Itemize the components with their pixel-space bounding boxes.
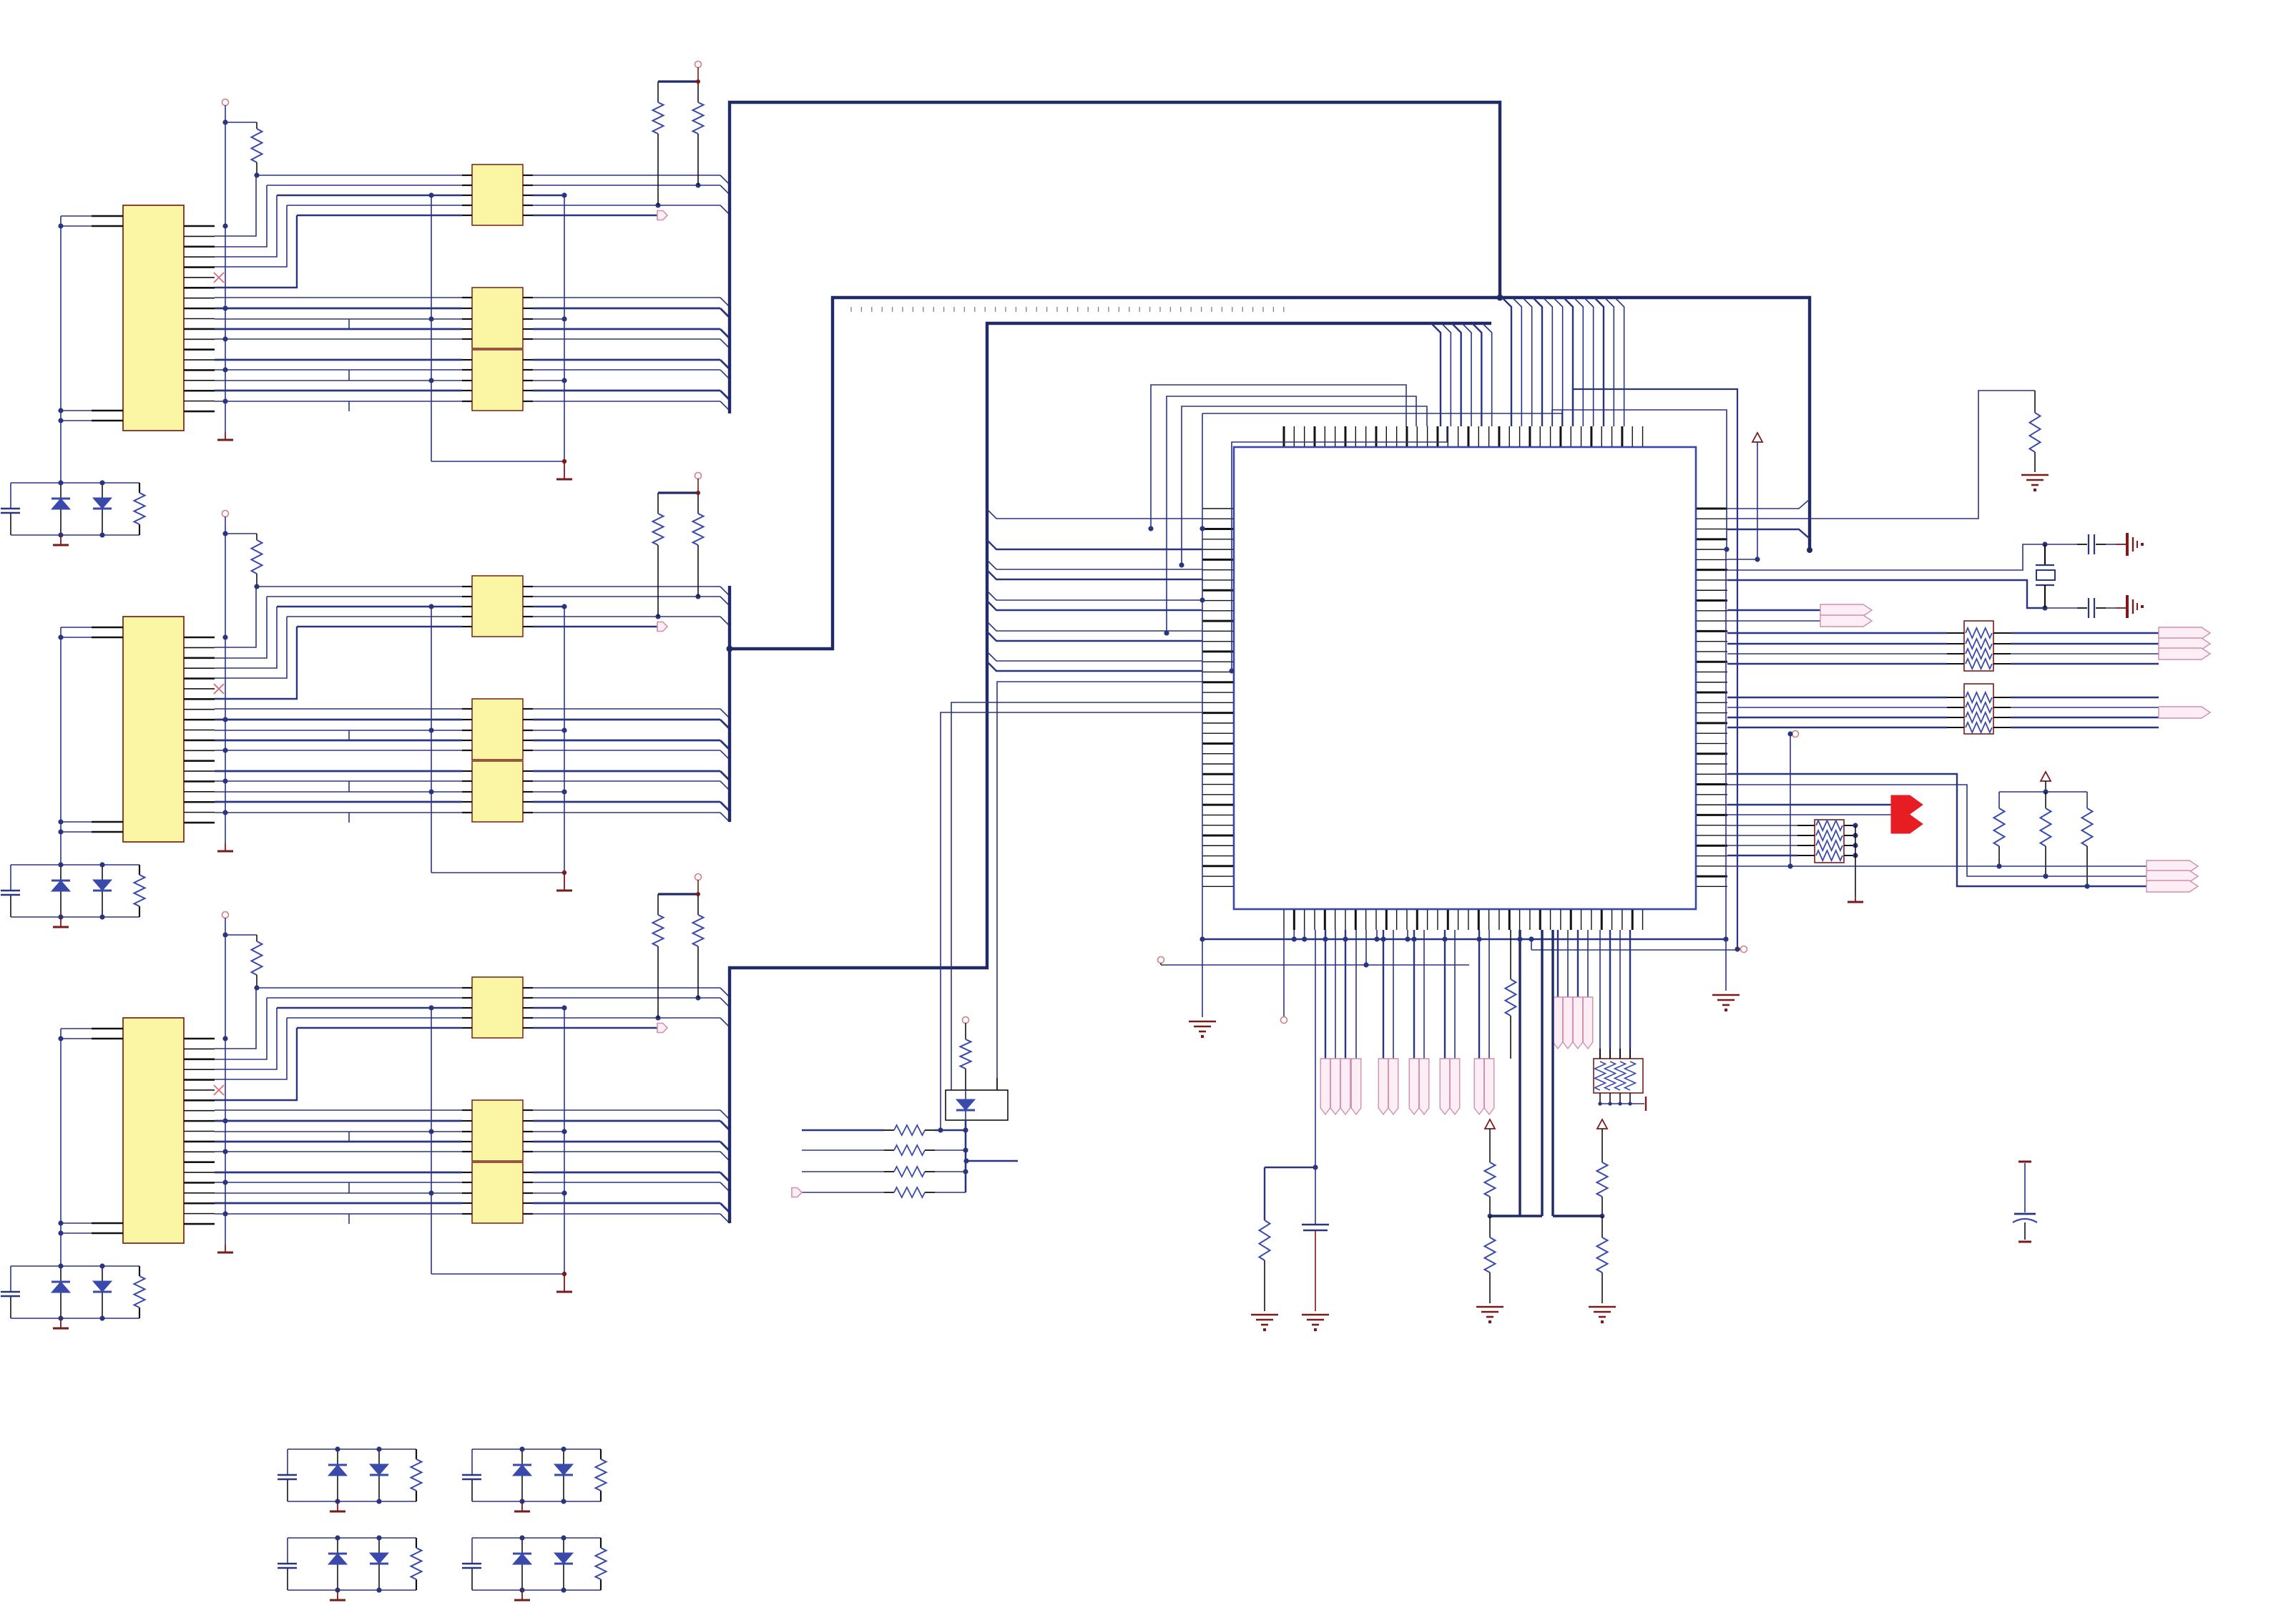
wire pull-up top bar 3 [658, 893, 698, 895]
U1 left pin 21 [1202, 712, 1233, 714]
bus wire drop A5 [1543, 298, 1552, 426]
wire row red arrow 2 [1727, 814, 1891, 815]
J3 pin 7 [184, 1099, 215, 1102]
RN2a pin stubs row 5 [462, 626, 472, 627]
RN2a pin stubs row 1 [462, 586, 472, 587]
wire common rail right 2 [564, 607, 565, 873]
U1 bottom pin 26 [1539, 910, 1541, 930]
over-IC link right A [1561, 410, 1563, 426]
J3 pin 6 [184, 1089, 215, 1091]
J1 pin 2 [184, 235, 215, 237]
RN1a pin stubs row 1 [462, 175, 472, 176]
U1 top pin 18 [1458, 426, 1459, 446]
U1 bottom pin 14 [1416, 910, 1418, 930]
U1 right pin 22 [1697, 722, 1727, 724]
divider R1 bottom [1489, 1216, 1491, 1237]
U1 left pin 13 [1202, 630, 1233, 632]
wire riser 3 J3 [215, 1008, 277, 1069]
resistor network RN_D [1594, 1059, 1643, 1093]
ground net 1 [217, 439, 233, 441]
U1 right pin 27 [1697, 773, 1727, 775]
wire riser 4 J2 [215, 617, 287, 678]
U1 right pin 36 [1697, 866, 1727, 867]
wire thick drop 2 [1551, 930, 1554, 1216]
wire drop GD1 [1444, 930, 1446, 1059]
wire RN_B row 1 right [1993, 697, 2011, 698]
resistor R33 [894, 1125, 925, 1135]
ground rail left [1189, 1021, 1216, 1031]
U1 left pin 37 [1202, 876, 1233, 877]
U1 left pin 20 [1202, 702, 1233, 703]
wire RN_C row 3 right [1844, 845, 1855, 846]
ground divider 1 [1476, 1307, 1503, 1317]
wire lower row 7 J2 [215, 780, 462, 782]
J3 pin 11 [184, 1141, 215, 1143]
ground divider 2 [1589, 1307, 1616, 1317]
wire lower row 6 J3 [215, 1172, 462, 1174]
J2 pin 1 [184, 637, 215, 639]
net arrow RED 2 [1891, 815, 1923, 833]
wire step jog J3 [348, 1182, 350, 1193]
net arrow GE2 [1484, 1059, 1494, 1114]
wire lower row 10 J1 [215, 401, 462, 402]
junction dots [335, 1446, 340, 1451]
wire lower row 8 J3 [215, 1192, 462, 1194]
IC U1 [1234, 447, 1696, 909]
net arrow RED 1 [1891, 795, 1923, 814]
J1 pin 19 [184, 411, 215, 413]
U1 top pin 5 [1324, 426, 1325, 446]
J1 pin 15 [184, 369, 215, 371]
U1 left pin 6 [1202, 559, 1233, 561]
J3 left pin 1 [92, 1028, 123, 1029]
net arrow GA2 [1330, 1059, 1340, 1114]
wire riser 1 J2 [215, 587, 256, 647]
wire over-IC link 3 [1182, 406, 1427, 565]
bus wire rip L8 [987, 632, 1202, 641]
wire lower row 9 J2 [215, 801, 462, 803]
junction dots [58, 480, 63, 485]
U1 right pin 1 [1697, 508, 1727, 510]
U1 top pin 23 [1508, 426, 1510, 446]
U1 bottom pin 10 [1375, 910, 1377, 930]
bus 3 from J3 [730, 323, 1491, 1223]
wire lower row 3 J2 [215, 730, 462, 731]
U1 top pin 35 [1632, 426, 1633, 446]
diode D7b [563, 1538, 564, 1590]
wire bottom pin drop 3 [1304, 930, 1305, 939]
J3 pin 4 [184, 1069, 215, 1070]
wire row3 2 (common) [277, 606, 462, 607]
J1 pin 7 [184, 287, 215, 289]
ground C10 [2127, 533, 2137, 556]
resistor network RN1c [472, 350, 523, 411]
wire cap branch [1315, 930, 1316, 1167]
net label ticks under bus [851, 307, 1284, 312]
resistor RN_D 2 [1605, 1061, 1616, 1090]
ground common rail 3 [564, 1274, 565, 1291]
wire W_a link [1552, 410, 1727, 549]
U1 top pin 26 [1539, 426, 1541, 446]
J3 left pin 4 [92, 1232, 123, 1234]
net arrow B [1820, 615, 1872, 627]
pull-up resistor R3c [697, 894, 699, 915]
wire RN_D drop 1 [1599, 930, 1601, 1049]
U1 right pin 10 [1697, 599, 1727, 602]
U1 right pin 13 [1697, 630, 1727, 632]
no-connect X on J1 pin 6 [214, 273, 224, 283]
wire res-cap top [1265, 1167, 1315, 1168]
resistor RN_C 3 [1816, 840, 1843, 850]
rail 1 below IC (thick) [1200, 938, 1725, 940]
U1 left pin 36 [1202, 865, 1233, 867]
wire net vertical 3 [225, 918, 226, 1245]
ground common rail 2 [564, 873, 565, 890]
terminal circle pull-up 3 [695, 874, 702, 881]
J2 pin 15 [184, 780, 215, 783]
U1 bottom pin 33 [1611, 910, 1613, 930]
U1 bottom pin 30 [1581, 910, 1582, 930]
terminal circle opto [963, 1017, 969, 1024]
U1 right pin 5 [1697, 549, 1727, 550]
wire common rail right 3 [564, 1008, 565, 1274]
wire RN_B row 2 left [1727, 707, 1947, 708]
wire RN_C row 1 [1727, 825, 1797, 826]
resistor RN_C 4 [1816, 850, 1843, 861]
J2 pin 17 [184, 801, 215, 803]
connector J2 [123, 617, 184, 842]
junction dots [58, 862, 63, 867]
U1 top pin 3 [1304, 426, 1305, 446]
U1 left pin 25 [1202, 753, 1233, 755]
wire drop GC1 [1413, 930, 1415, 1059]
U1 bottom pin 27 [1550, 910, 1551, 930]
diode D4b [378, 1449, 380, 1501]
rail 3 below IC [1158, 957, 1164, 964]
ground below D5a [521, 1501, 523, 1511]
wire left vertical to suppression network [60, 216, 62, 483]
ground RN_D [1645, 1097, 1647, 1111]
U1 right pin 25 [1697, 752, 1727, 755]
bus wire drop A11 [1604, 298, 1614, 426]
terminal bar C13 bottom [2018, 1241, 2031, 1243]
U2 pin top right [996, 1078, 998, 1090]
resistor R34 [894, 1145, 925, 1155]
bus wire drop B3 [1452, 323, 1461, 426]
wire trio row B [1727, 785, 2147, 876]
U1 bottom pin 12 [1396, 910, 1398, 930]
wire RN_D drop 4 [1629, 930, 1631, 1049]
net arrow GE1 [1474, 1059, 1484, 1114]
wire common rail bottom 1 [431, 461, 564, 462]
wire RN_A row 4 right [1993, 663, 2011, 665]
U1 left pin 4 [1202, 539, 1233, 540]
U1 top pin 12 [1396, 426, 1398, 446]
capacitor C4a [278, 1474, 297, 1476]
wire drop GE2 [1488, 930, 1490, 1059]
wire to opto cluster 2 [951, 702, 1202, 1090]
wire opto row 4 [802, 1192, 884, 1193]
U1 top pin 33 [1611, 426, 1613, 446]
bus wire rip L2 [987, 540, 1202, 549]
resistor R35 [894, 1167, 925, 1177]
wire common rail bottom 3 [431, 1273, 564, 1275]
J3 pin 5 [184, 1079, 215, 1081]
wire RN_C row 4 [1727, 855, 1797, 856]
U1 left pin 3 [1202, 528, 1233, 530]
diode D1b [102, 483, 103, 535]
wire lower row 5 J1 [215, 338, 462, 340]
U1 left pin 28 [1202, 784, 1233, 785]
J1 left pin 3 [92, 410, 123, 411]
junction dots [335, 1535, 340, 1540]
resistor R4g [411, 1459, 422, 1491]
U1 right pin 31 [1697, 814, 1727, 816]
wire lower row 9 J3 [215, 1202, 462, 1205]
U1 top pin 2 [1293, 426, 1295, 446]
J2 pin 8 [184, 709, 215, 710]
RN1a pin stubs row 4 [462, 205, 472, 206]
U1 top pin 20 [1478, 426, 1479, 446]
resistor network RN1a [472, 165, 523, 225]
wire bottom pin drop 2 [1293, 930, 1295, 939]
ground 2413 [1712, 995, 1740, 1005]
U1 left pin 15 [1202, 650, 1233, 652]
J2 pin 7 [184, 698, 215, 700]
wire opto row 1 [802, 1129, 884, 1131]
diode D2a [60, 865, 62, 917]
pull-up resistor R1c [697, 82, 699, 102]
J2 pin 19 [184, 822, 215, 824]
resistor R32 [965, 1023, 966, 1039]
J2 pin 9 [184, 719, 215, 721]
resistor R3g [134, 1276, 145, 1308]
J2 pin 14 [184, 770, 215, 772]
resistor RN_A 1 [1966, 628, 1992, 638]
wire VCC to pin row 782 [1757, 442, 1758, 559]
VCC arrow divider 2 [1597, 1119, 1607, 1129]
RN_D pin 1 [1599, 1049, 1601, 1059]
capacitor C11 [2045, 607, 2077, 609]
junction dots [519, 1446, 524, 1451]
wire divider 2 tap [1553, 1215, 1602, 1217]
wire row 853 [1727, 609, 1820, 611]
wire RN_A row 4 left [1727, 663, 1947, 665]
resistor RN_A 4 [1966, 659, 1992, 669]
wire riser 1 J3 [215, 988, 256, 1049]
wire riser 5 J3 (thick) [215, 1028, 297, 1100]
wire common rail bottom 2 [431, 872, 564, 873]
diode in U2 [965, 1090, 966, 1120]
J2 left pin 1 [92, 627, 123, 628]
bus wire rip L7 [987, 622, 1202, 631]
wire lower row 2 J3 [215, 1120, 462, 1122]
U1 bottom pin 9 [1365, 910, 1367, 930]
wire to opto cluster 3 [941, 712, 1202, 1130]
U1 right pin 26 [1697, 763, 1727, 765]
net arrow GF1 [1553, 997, 1563, 1049]
J3 pin 17 [184, 1202, 215, 1205]
J3 pin 8 [184, 1110, 215, 1112]
U1 right pin 14 [1697, 641, 1727, 642]
wire row 782 [1727, 559, 1757, 560]
diode D6a [337, 1538, 338, 1590]
junction dots [519, 1535, 524, 1540]
wire pull-up top bar 1 [658, 80, 698, 82]
connector J3 [123, 1018, 184, 1243]
bus wire rip L6 [987, 601, 1202, 610]
RN1a pin stubs row 5 [462, 215, 472, 216]
wire over-IC link 1 [1151, 385, 1406, 529]
ground C12 [1302, 1315, 1329, 1325]
U1 bottom pin 11 [1385, 910, 1388, 930]
U1 right pin 7 [1697, 569, 1727, 571]
VCC arrow right [1752, 433, 1762, 442]
net arrow GA1 [1320, 1059, 1330, 1114]
U1 left pin 14 [1202, 641, 1233, 642]
bus wire drop B2 [1441, 323, 1451, 426]
net arrow GC1 [1409, 1059, 1419, 1114]
wire lower row 2 J2 [215, 719, 462, 721]
bus wire drop A7 [1564, 298, 1573, 426]
net arrow GD1 [1440, 1059, 1450, 1114]
U1 right pin 21 [1697, 712, 1727, 714]
U1 left pin 8 [1202, 579, 1233, 581]
wire row5 2 (to net arrow) [297, 626, 462, 627]
ground R31 [1251, 1315, 1278, 1325]
U1 right pin 28 [1697, 783, 1727, 785]
wire RN_B row 4 right [1993, 727, 2011, 728]
wire pull-up top bar 2 [658, 491, 698, 494]
J1 pin 12 [184, 338, 215, 340]
ground net 2 [217, 850, 233, 853]
bus 2 branch [730, 298, 1810, 649]
diode D6b [378, 1538, 380, 1590]
wire bottom pin drop 1 to terminal [1283, 930, 1285, 1016]
divider R2 top [1601, 1129, 1603, 1162]
J3 pin 10 [184, 1131, 215, 1132]
wire lower row 1 J1 [215, 297, 462, 298]
bus 1 from J1 [730, 102, 1500, 413]
wire lower row 4 J2 [215, 740, 462, 742]
U1 right pin 33 [1697, 835, 1727, 836]
ground below D7a [521, 1590, 523, 1600]
U1 top pin 6 [1335, 426, 1336, 446]
U1 right pin 2 [1697, 518, 1727, 519]
RN3a pin stubs row 4 [462, 1017, 472, 1019]
U1 bottom pin 13 [1406, 910, 1408, 930]
resistor R2a pull-up [225, 533, 257, 534]
rail ground left below IC [1202, 413, 1203, 1017]
capacitor C1a [1, 508, 20, 509]
wire RN_B row 2 right [1993, 707, 2011, 708]
capacitor C6a [278, 1563, 297, 1564]
U1 bottom pin 15 [1427, 910, 1428, 930]
wire RN_C row 2 right [1844, 835, 1855, 836]
J3 pin 19 [184, 1223, 215, 1225]
wire divider 1 tap [1490, 1215, 1542, 1217]
U1 right pin 23 [1697, 732, 1727, 734]
pull-up resistor R2b [657, 493, 659, 514]
divider R2 bottom [1601, 1216, 1603, 1237]
wire row 725 to pulldown [1727, 391, 2035, 519]
U1 right pin 37 [1697, 876, 1727, 878]
bus 2 end cap [1807, 547, 1812, 553]
J1 pin 16 [184, 380, 215, 381]
RN2a pin stubs row 2 [462, 596, 472, 597]
net terminal circle 1 [222, 99, 229, 106]
wire U2 branch right [966, 1160, 1018, 1162]
U1 right pin 24 [1697, 742, 1727, 744]
wire step jog J1 [348, 370, 350, 381]
J3 left pin 2 [92, 1038, 123, 1039]
pull-up resistor R2c [697, 493, 699, 514]
wire lower row 1 J2 [215, 708, 462, 710]
U1 top pin 24 [1519, 426, 1521, 446]
resistor RN_B 3 [1966, 712, 1992, 722]
U1 top pin 13 [1405, 426, 1408, 446]
J2 left pin 2 [92, 637, 123, 638]
U1 bottom pin 6 [1335, 910, 1336, 930]
wire riser 4 J3 [215, 1018, 287, 1079]
wire U2 to resistor rows [965, 1120, 967, 1192]
J3 pin 13 [184, 1161, 215, 1163]
J2 pin 13 [184, 760, 215, 762]
bus wire rip R1 [1727, 499, 1810, 509]
resistor R30 [1510, 930, 1511, 979]
J3 pin 14 [184, 1172, 215, 1173]
bus wire rip L10 [987, 662, 1202, 671]
U1 bottom pin 21 [1488, 910, 1490, 930]
U1 left pin 34 [1202, 845, 1233, 846]
diode D3b [102, 1266, 103, 1318]
pull-up resistor R3b [657, 894, 659, 915]
resistor RN_D 4 [1625, 1061, 1636, 1090]
wire lower row 10 J3 [215, 1213, 462, 1215]
resistor R36 [894, 1187, 925, 1197]
resistor R5g [596, 1459, 607, 1491]
U1 bottom pin 36 [1642, 910, 1644, 930]
bus 2 from J2 [728, 586, 731, 822]
resistor R1a pull-up [225, 122, 257, 123]
wire drop GF1 [1557, 930, 1559, 997]
J3 pin 3 [184, 1058, 215, 1060]
wire link top pin to right pin row 768 [1573, 389, 1737, 949]
wire lower row 8 J2 [215, 791, 462, 793]
resistor RN_B 4 [1966, 722, 1992, 732]
U1 bottom pin 34 [1622, 910, 1623, 930]
wire step jog J2 [348, 781, 350, 792]
J1 pin 8 [184, 298, 215, 299]
wire drop GA3 [1345, 930, 1346, 1059]
U1 top pin 31 [1590, 426, 1592, 446]
wire riser 1 J1 [215, 175, 256, 236]
wire row2 2 [267, 596, 462, 597]
wire riser 5 J1 (thick) [215, 215, 297, 288]
junction dots [58, 1263, 63, 1268]
J1 pin 6 [184, 277, 215, 278]
no-connect X on J2 pin 6 [214, 684, 224, 694]
wire RN_A row 1 right [1993, 632, 2011, 634]
ground below D3a [60, 1318, 62, 1328]
J3 pin 12 [184, 1151, 215, 1152]
capacitor C13 [2018, 1161, 2031, 1163]
terminal circle rail 2 [1741, 946, 1747, 953]
suppression network box D7 [472, 1537, 601, 1539]
bus wire drop B4 [1462, 323, 1471, 426]
net arrow GA3 [1340, 1059, 1350, 1114]
diode D2b [102, 865, 103, 917]
